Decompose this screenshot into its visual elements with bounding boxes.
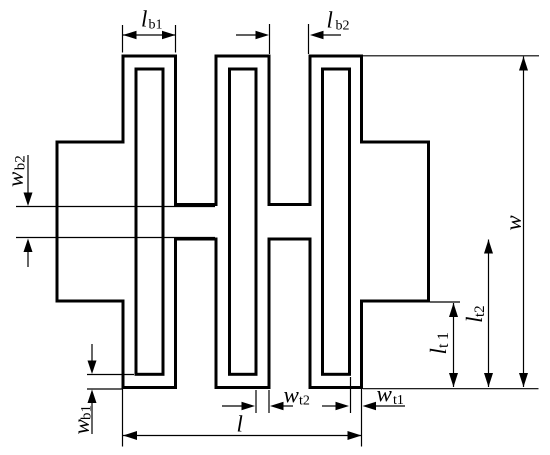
wire w_b1 down arrow xyxy=(91,344,93,362)
wire w top extension line xyxy=(363,55,539,57)
node outer boundary of microstrip resonator xyxy=(57,56,429,388)
wire l_b2 extension right (x=308.5) xyxy=(308,24,310,54)
svg-text:b1: b1 xyxy=(79,405,95,420)
node slot in finger 1 xyxy=(136,69,163,374)
wire w dimension line xyxy=(523,57,525,388)
svg-text:w: w xyxy=(377,382,393,407)
wire l dimension line xyxy=(123,435,362,437)
wire l extension left (x=122.5) xyxy=(122,389,124,447)
wire l_b1 dimension line xyxy=(123,34,176,36)
svg-text:b2: b2 xyxy=(13,155,29,170)
svg-text:l: l xyxy=(141,7,147,32)
svg-text:l: l xyxy=(327,8,333,33)
wire l_b2 extension left (x=269.5) xyxy=(269,24,271,54)
wire w_t2 right arrow xyxy=(282,405,293,407)
wire l_b2 left arrow xyxy=(236,34,257,36)
node label w_b1 xyxy=(69,405,95,435)
wire l_t1 extension line (y=302) xyxy=(430,301,460,303)
wire w_b1 extension line bottom (y=389) xyxy=(87,388,122,390)
wire l extension right (x=361.5) xyxy=(361,389,363,447)
wire w_t1 left arrow xyxy=(322,405,336,407)
wire w_t1 right arrow xyxy=(376,405,405,407)
wire w bottom extension line xyxy=(363,388,539,390)
wire w_b2 extension line top (y=206.5) xyxy=(16,206,215,208)
svg-text:t2: t2 xyxy=(472,305,488,317)
wire w_t1 extension (x=350.5) xyxy=(350,377,352,413)
node slot in finger 3 xyxy=(323,69,350,374)
wire l_t1 dimension line xyxy=(453,303,455,387)
node label w_b2 xyxy=(3,155,29,187)
svg-text:l: l xyxy=(426,348,451,354)
wire w_t2 extension right (x=269) xyxy=(268,390,270,413)
wire l_b1 extension right (x=175.5) xyxy=(175,25,177,53)
svg-text:w: w xyxy=(3,171,28,187)
svg-text:t1: t1 xyxy=(435,329,452,348)
wire w_b2 extension line bottom (y=237.5) xyxy=(16,237,215,239)
svg-text:t2: t2 xyxy=(299,394,310,409)
svg-text:l: l xyxy=(237,412,243,437)
wire w_t2 left arrow xyxy=(222,405,243,407)
svg-text:b1: b1 xyxy=(149,18,163,33)
node label w xyxy=(501,215,526,231)
svg-text:w: w xyxy=(284,383,300,408)
wire w_b2 up arrow xyxy=(27,250,29,267)
wire w_b1 up arrow xyxy=(91,402,93,434)
node slot in finger 2 xyxy=(230,69,257,374)
node label l_t2 xyxy=(462,305,488,323)
wire l_b1 extension left (x=123) xyxy=(122,25,124,53)
wire l_t2 dimension line xyxy=(488,240,490,388)
wire w_b2 down arrow xyxy=(27,155,29,194)
svg-text:w: w xyxy=(501,215,526,231)
svg-text:t1: t1 xyxy=(393,393,404,408)
svg-text:b2: b2 xyxy=(336,19,350,34)
wire w_b1 extension line top (y=374.5) xyxy=(87,374,134,376)
wire w_t2 extension left (x=256) xyxy=(255,390,257,413)
wire l_b2 right arrow xyxy=(322,34,341,36)
node label l_t1 xyxy=(426,329,452,355)
